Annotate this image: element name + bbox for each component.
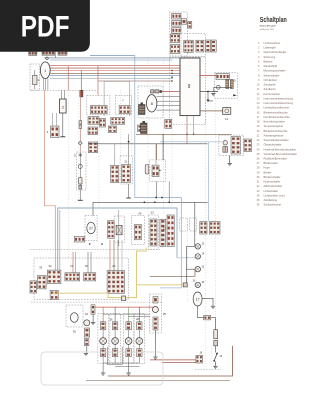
legend item 26 [257,157,288,161]
legend item 15 [257,106,290,110]
wire yellow long [52,293,137,298]
legend item 21 [257,133,284,137]
wire battery column [79,90,81,152]
turn lamp 28b socket top [137,322,142,330]
resistor 2 [33,70,37,89]
ignition coil 10 enclosure [215,73,238,99]
switch 19 [213,353,218,367]
wire lamp bus [103,362,139,364]
magneto 8 enclosure [138,86,163,118]
connector 27b [108,221,115,239]
tail lamp 26a bulb [100,338,107,345]
wire 17 down [198,306,216,318]
rectifier 3 [60,99,67,113]
wire to rectifier 3b [63,90,65,99]
svg-text:25: 25 [163,312,167,316]
wire red drop to switch [97,66,99,96]
connector C19 [209,222,220,235]
wire blue long [58,208,177,270]
switch 33b [30,281,37,293]
connector K10 [205,40,210,52]
wire lamp top link [103,313,150,315]
legend item 2 [258,46,276,50]
wire lamp top link 2 [128,315,150,317]
svg-text:Temperaturgeber: Temperaturgeber [264,124,284,128]
connector 34a [84,328,89,337]
connector 6d [108,126,116,133]
wire turn lamp 28b link2 [138,344,140,348]
generator 1 [40,62,50,79]
legend item 10 [257,83,277,87]
svg-text:Blinkerkontrolleuchte: Blinkerkontrolleuchte [264,129,289,133]
junction J7 [89,243,91,245]
switch 32 [47,270,61,284]
ground G35 [91,323,95,325]
wire rectifier ground [62,113,64,137]
wire lamp13 lead [186,245,195,247]
diode unit D2 [116,225,122,234]
switch 34 [84,320,90,326]
wire black long [88,143,208,145]
legend item 7 [258,69,286,73]
svg-text:27: 27 [89,227,93,231]
wire gen drop 1 [43,78,45,90]
svg-text:3: 3 [62,105,64,109]
connector 6f [138,125,146,132]
svg-text:Bremslichtschalter: Bremslichtschalter [264,120,285,124]
switch 25 [152,307,158,313]
switch 32b [50,290,58,299]
wire coil gnd drop [213,87,215,92]
connector X1 [29,51,37,55]
svg-text:17: 17 [196,298,200,302]
battery cell 5e [79,185,82,189]
connector K4 [182,19,187,25]
horn 35 [70,313,78,323]
wire plug ground stem [229,156,231,164]
wire lamp gnd2 [128,363,130,373]
connector K9 [196,40,204,52]
switch 30 [84,273,96,281]
junction J9 [171,70,173,72]
legend item 13 [257,96,294,100]
svg-text:Lichtschalter (zus.): Lichtschalter (zus.) [264,194,286,198]
wire brown bus [50,72,180,74]
svg-text:Motorstoppschalter: Motorstoppschalter [264,69,286,73]
ignition switch 6 contacts [91,106,108,114]
wire CDI to coil red [200,74,216,76]
fuse 5 [79,178,82,184]
svg-text:Zündspule: Zündspule [264,83,277,87]
connector group enclosure [181,34,206,57]
ground G19 [213,366,217,368]
wire turn lamp 28b down [138,357,140,363]
wire CDI to coil black [200,91,218,93]
svg-text:Laderegler: Laderegler [264,46,277,50]
connector 6e [88,142,97,153]
junction J11 [171,76,173,78]
wire lamp13 feed [194,202,196,246]
svg-text:21: 21 [124,160,128,164]
connector 19 enclosure [190,218,197,231]
junction J4 [154,201,156,203]
legend item 12 [257,92,281,96]
turn lamp 28a bulb [125,338,132,345]
connector 24 pins [135,225,142,240]
kill switch 7 contacts [119,106,130,114]
connector 6g [100,119,106,128]
legend item 5 [258,60,273,64]
junction J3 [144,201,146,203]
decorative faint box [41,352,163,385]
wire conn4 lead1 [52,113,54,126]
connector 18 enclosure [180,218,188,231]
connector 17a [204,315,211,320]
wire tail lamp 26a down [102,357,104,363]
legend item 6 [258,64,277,68]
legend item 19 [257,124,284,128]
legend item 33 [257,189,279,193]
spark plug output arrow [233,94,237,96]
pickup coil 8a [151,90,163,93]
tail lamp 26b enclosure [110,314,120,364]
svg-text:Blinker: Blinker [264,170,272,174]
svg-text:Fantic 307 typ.8: Fantic 307 typ.8 [260,24,276,27]
connector C18 [200,222,207,235]
svg-text:Hupe: Hupe [264,166,271,170]
spark gap 10c [216,85,220,89]
svg-text:Rücklicht/Bremslicht: Rücklicht/Bremslicht [264,157,288,161]
fuse 5a2 [79,125,82,129]
indicator lamp 15 [195,267,200,272]
legend item 1 [258,41,281,45]
svg-text:Blinkerkontrolleuchte: Blinkerkontrolleuchte [264,110,289,114]
ground G10 [211,94,215,96]
legend item 34 [257,194,286,198]
legend item 8 [258,73,280,77]
svg-text:Batterie: Batterie [264,60,273,64]
wire brown long [136,133,232,135]
guide line D [120,90,122,156]
wire blue box right [135,55,182,197]
junction J5 [155,197,157,199]
coil winding 10b [230,80,233,89]
wire lamp U loop [107,347,122,365]
connector 34b [84,339,89,346]
svg-text:Gleichrichter/Regler: Gleichrichter/Regler [264,50,287,54]
connector K8 [184,40,193,52]
wire red bottom feed [95,306,153,308]
horn 35 enclosure [66,305,83,327]
indicator lamp 13 [195,244,200,249]
fuse F2 [214,330,218,339]
wire turn lamp 28a down [128,357,130,363]
legend item 35 [257,198,278,202]
junction J2 [207,100,210,103]
junction J15 [128,141,130,143]
node N1 [46,57,49,60]
rectifier 11 [223,108,231,115]
guide line C [98,104,100,208]
connector 6b [111,118,125,125]
wire conn4 lead2 [56,113,58,126]
wire tail lamp 26a link [102,330,104,338]
connector 35a [91,305,95,314]
wire coil internal [214,86,232,88]
connector 23 pins [150,219,157,246]
svg-text:26: 26 [109,318,113,322]
svg-text:Schaltplan: Schaltplan [260,15,287,24]
guide line B [78,90,80,200]
svg-text:Lichtschalter: Lichtschalter [264,189,279,193]
svg-text:Anlassergehäuse: Anlassergehäuse [264,133,285,137]
wire yellow vertical [137,248,147,298]
ground G26 [101,373,105,375]
coil winding 10a [226,80,229,89]
wire blue bus 3 [50,75,180,77]
connector 23 enclosure [149,215,159,249]
connector 24 enclosure [132,216,145,245]
spark plug 12 [223,141,228,153]
legend item 25 [257,152,297,156]
legend item 29 [257,170,272,174]
wire light-blue bottom [160,287,181,289]
wire lamp15 lead [186,268,195,270]
tail lamp 26b socket top [112,322,117,330]
turn lamp 28b enclosure [134,314,144,364]
relay 22 stub [159,169,161,171]
turn lamp 28a enclosure [123,314,133,364]
wire lamp bus 2 [115,365,139,367]
junction J14 [193,134,195,136]
connector 12a [231,137,240,155]
svg-text:Leerlaufkontrolleuchte: Leerlaufkontrolleuchte [264,106,290,110]
legend item 16 [257,110,289,114]
terminal T1 [60,136,65,138]
CDI unit 9 [180,58,200,116]
wire gray frame [104,81,130,116]
relay 21 enclosure [120,156,132,184]
guide line E [131,90,133,156]
connector 6h [165,119,172,128]
wire tail lamp 26b link [114,330,116,338]
svg-text:28: 28 [136,317,140,321]
fuse holder 4 [51,126,60,138]
wire red pair a [150,359,196,361]
svg-text:Fernlichtkontrolleuchte: Fernlichtkontrolleuchte [264,115,291,119]
wire lamp rail [185,246,187,285]
legend item 3 [258,50,287,54]
dashed rail bottom right [195,369,221,371]
brake light switch 25 enclosure [150,294,162,333]
connector K3 [172,28,181,34]
svg-text:Seitenständer: Seitenständer [264,73,280,77]
connector K11 [211,40,216,52]
relay 21 contacts [122,165,131,183]
wire magneto lead2 [157,105,180,107]
svg-text:11: 11 [225,117,228,121]
wire red into 29a [109,240,111,271]
wire CDI drop red [186,116,188,144]
wire turn lamp 28a feed [128,307,130,322]
wire 34 ground [86,346,88,353]
connector 12b [244,139,252,152]
diode block 36 [183,283,187,287]
wire gen drop 3 [47,78,49,90]
wire dark drop 22 [162,134,164,160]
wire tail lamp 26a link2 [102,344,104,348]
svg-text:Zündschloß: Zündschloß [264,64,278,68]
switch assembly enclosure [34,258,129,300]
svg-text:32: 32 [49,264,53,268]
brake switch 18 [196,355,203,363]
svg-text:ab Baujahr 1993: ab Baujahr 1993 [260,28,274,31]
svg-text:Kerzenstecker: Kerzenstecker [264,92,281,96]
turn lamp 28a socket top [126,322,131,330]
wire brown to lamp15 [150,269,195,276]
legend item 11 [257,87,277,91]
ignition coil 10 terminal block [216,74,229,80]
junction J6 [161,197,163,199]
tail lamp 26b bulb [112,338,119,345]
indicator lamp 14 [195,254,200,259]
svg-text:Blinkerschalter: Blinkerschalter [264,175,281,179]
tail lamp 26a socket top [100,322,105,330]
guide line K [211,348,213,368]
wire pale through 22 [155,144,157,165]
wire battery column lower [79,152,81,200]
switch 33 [38,276,47,289]
junction J8 [101,243,103,245]
wire 22 down [155,181,157,197]
svg-text:23: 23 [151,211,155,215]
wire fuse down [215,346,217,353]
relay 22 contacts [152,165,159,177]
svg-text:Vorderrad-Bremslichtschalter: Vorderrad-Bremslichtschalter [264,152,298,156]
junction J6b [168,201,170,203]
wire light-blue to lamp14 [177,257,195,259]
relay 22 body [145,165,149,175]
indicator lamp 16 [195,282,200,287]
connector K1 [172,13,181,19]
svg-text:34: 34 [85,312,89,316]
spark plug 12 enclosure [219,135,244,155]
guide line G [163,60,165,215]
wire 22 down brown [168,181,170,202]
wire yellow to D [137,284,183,286]
legend item 27 [257,161,279,165]
svg-text:CDI-Einheit: CDI-Einheit [264,78,278,82]
wire gray into 31 [75,252,77,273]
legend item 9 [258,78,277,82]
wire CDI drop gray [193,116,195,135]
connector K2 [172,21,181,27]
junction J12 [171,80,173,82]
terminal T3 [126,197,131,199]
legend item 20 [257,129,289,133]
svg-text:Hinterrad-Bremslichtschalter: Hinterrad-Bremslichtschalter [264,147,297,151]
dashed rail bottom [31,301,162,303]
wire magneto lead0 [157,96,181,98]
terminal T2 [78,199,83,201]
guide line A [67,90,69,258]
legend item 36 [257,203,282,207]
guide line L [187,230,189,303]
wire dark into 30 [87,252,89,273]
junction J1 [207,91,209,93]
wire brown into 29b [113,240,115,271]
wire 21 feed [128,134,130,164]
legend item 18 [257,120,285,124]
legend item 22 [257,138,289,142]
connector K6 [170,34,179,43]
wire pale vertical 32 [59,210,61,270]
wire blue drop 2 [180,198,182,288]
battery 5 enclosure [77,152,87,190]
wire dark into 29c [117,240,119,271]
dashed rail top-left [30,89,96,91]
wire magneto lead3 [157,109,181,111]
wire light-blue mid [160,141,222,143]
fuse 5a [79,121,82,125]
connector 12c pins [167,215,174,246]
tail lamp 26b socket bottom [112,349,117,357]
ignition coil HT1 [139,103,146,115]
legend item 4 [258,55,276,59]
wire through diode unit [118,210,120,246]
wire tail lamp 26b link2 [114,344,116,348]
legend item 17 [257,115,291,119]
wire dark-red pair b [162,361,196,363]
connector 21a [111,165,119,182]
wire tail lamp 26b down [114,357,116,363]
wire red drop [80,71,82,91]
svg-text:Zündleitung: Zündleitung [264,198,278,202]
dashed rail mid [30,249,160,251]
connector K5 [188,21,192,28]
svg-text:Sicherung: Sicherung [264,55,276,59]
wire CDI to 11 [200,110,223,112]
legend item 28 [257,166,271,170]
svg-text:Abblendschalter: Abblendschalter [264,184,283,188]
guide line F [147,60,149,215]
wire lamp gnd1 [102,363,104,373]
wire red bus 2 [50,70,180,72]
svg-text:Lichtmaschine: Lichtmaschine [264,41,281,45]
ground G34 [84,354,88,356]
connector 29 [107,271,124,294]
wire 21a feed [114,144,116,166]
diode unit enclosure [114,216,125,242]
legend item 31 [257,180,281,184]
guide line H [171,13,173,208]
svg-text:35: 35 [73,330,77,334]
wire turn lamp 28b link [138,330,140,338]
turn lamp 28a socket bottom [126,349,131,357]
svg-text:Instrumentenbeleuchtung: Instrumentenbeleuchtung [264,101,294,105]
svg-text:Ölstandschalter: Ölstandschalter [264,143,282,147]
tail lamp 26a enclosure [98,314,108,364]
switch 31 [65,273,80,281]
tail lamp 26a socket bottom [100,349,105,357]
wire gray into 29d [121,240,123,271]
wire fuse drop [215,318,217,330]
wire gen drop 2 [45,78,47,90]
wire coil drop [208,92,213,101]
junction J10 [171,73,173,75]
node circle 5c [78,164,82,168]
wire turn lamp 28a link2 [128,344,130,348]
